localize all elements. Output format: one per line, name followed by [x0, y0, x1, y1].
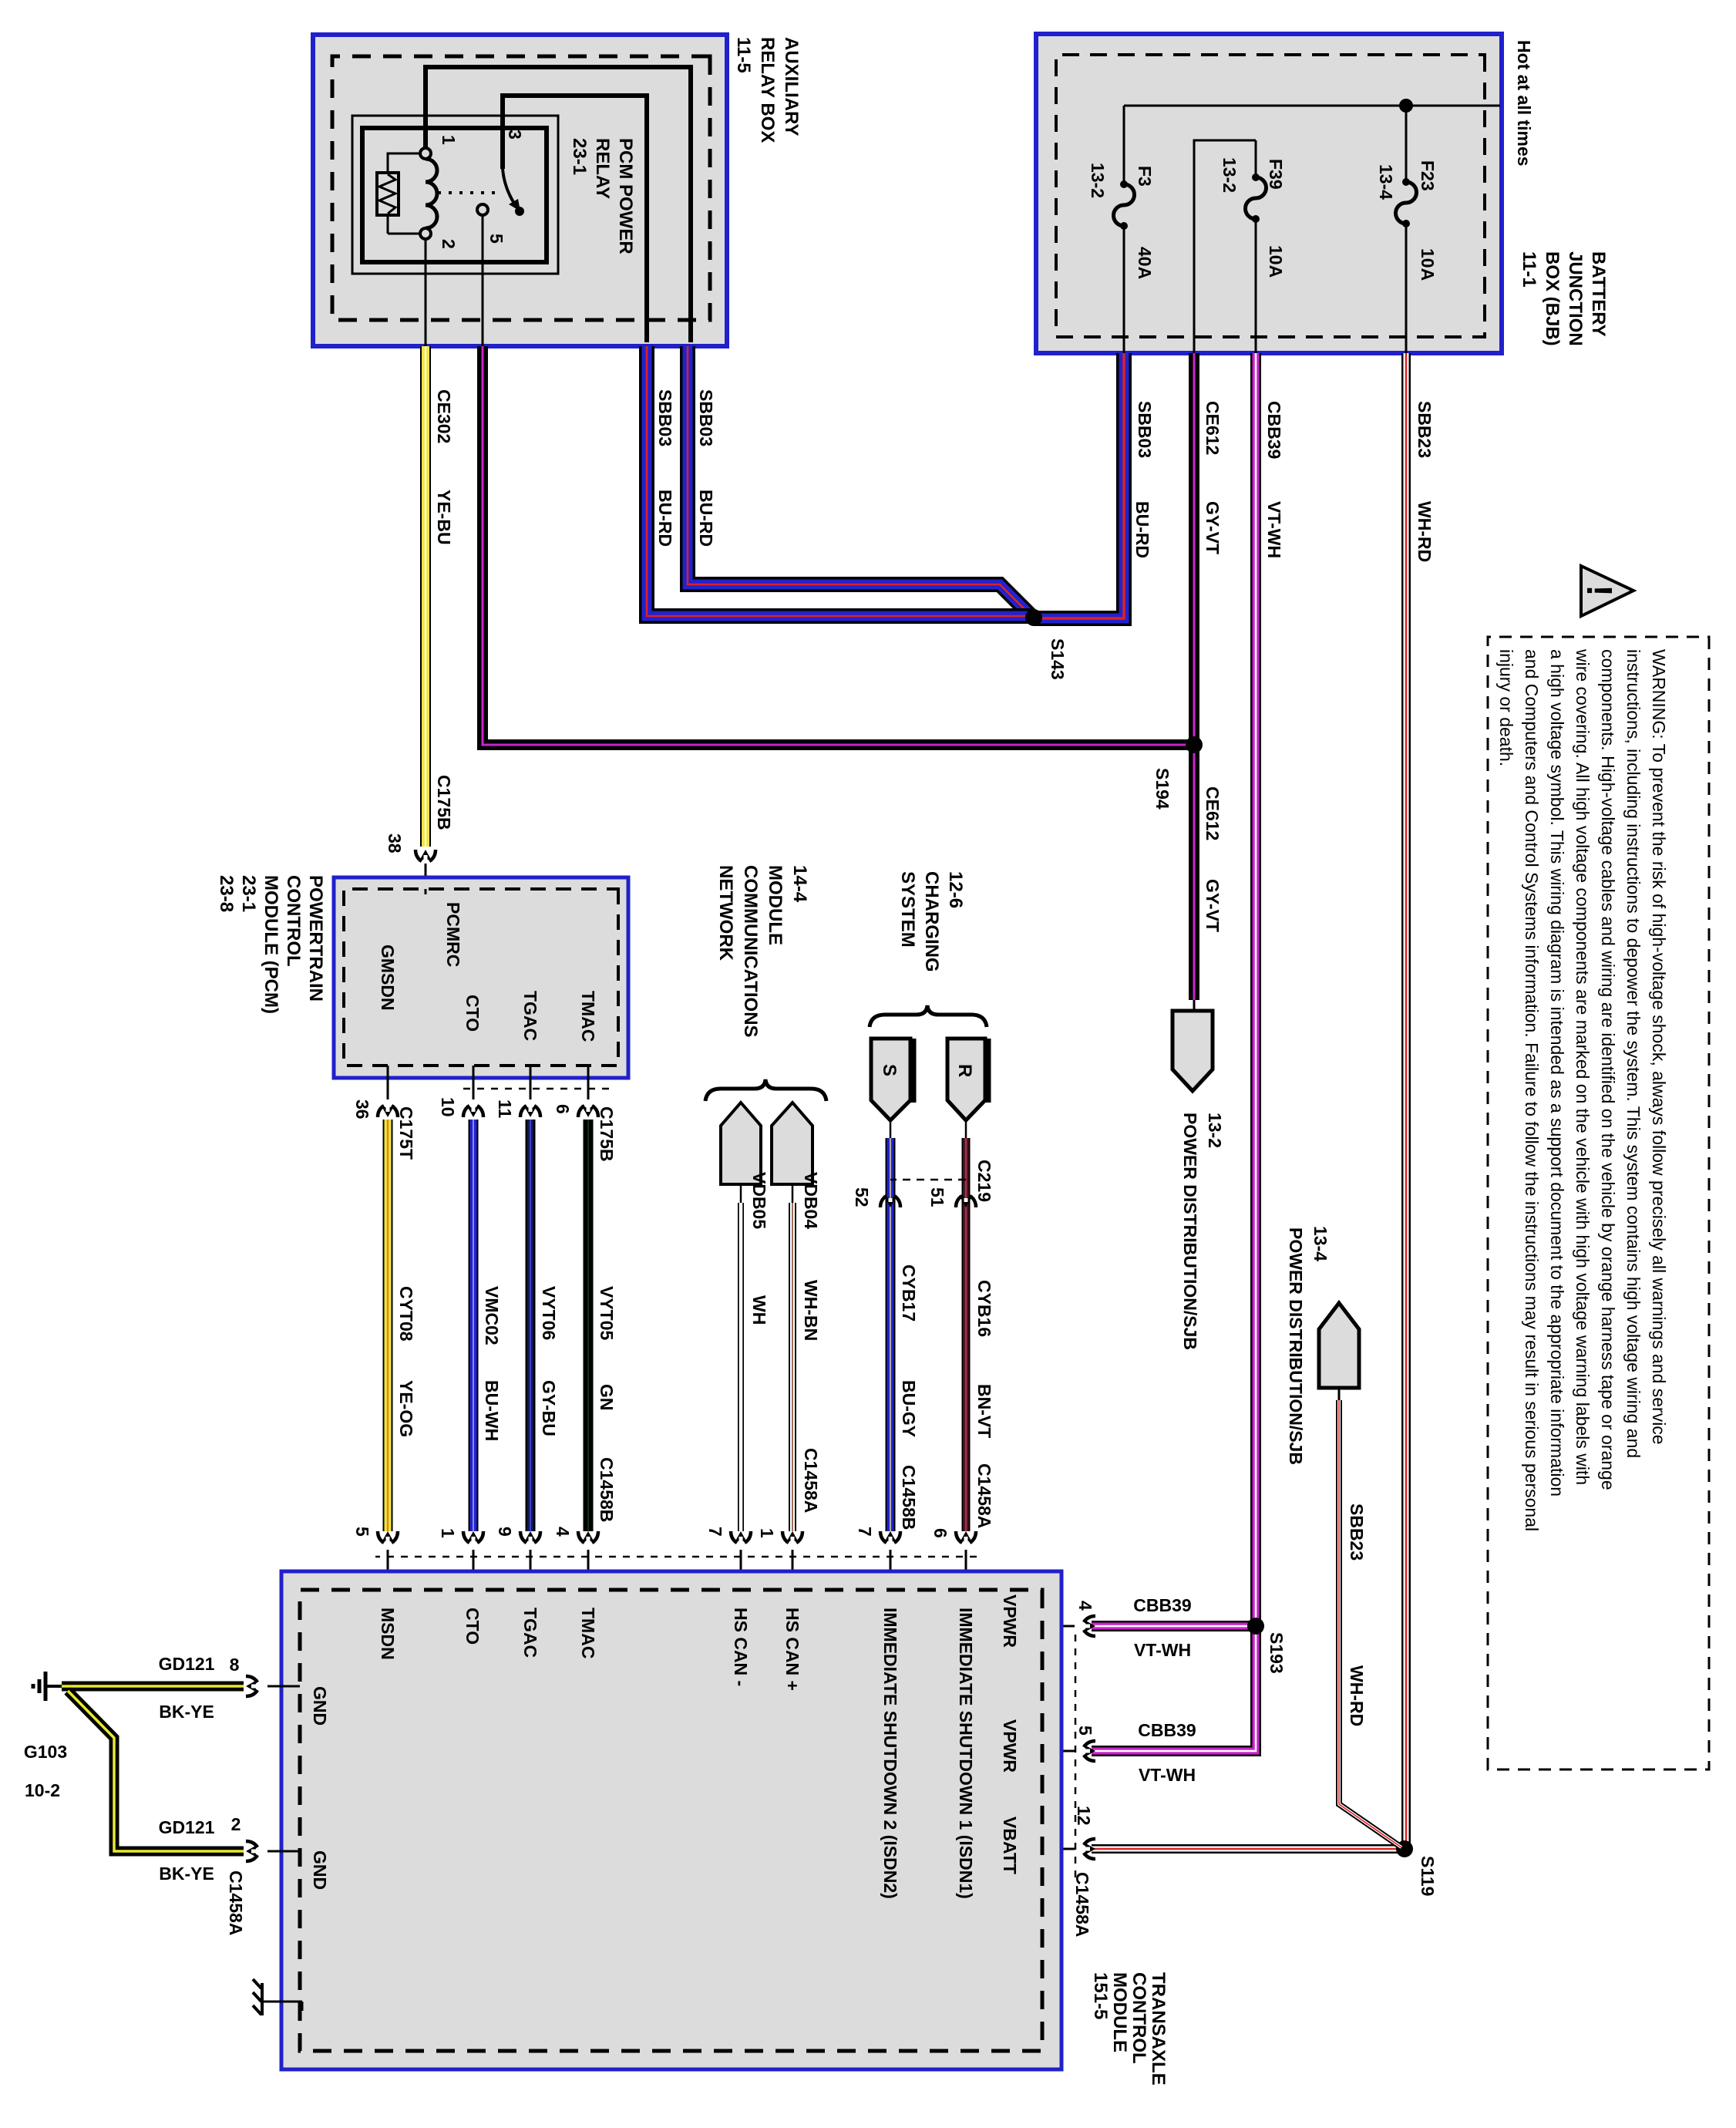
svg-text:CONTROL: CONTROL [1129, 1972, 1149, 2064]
powertrain control module PCM box [334, 877, 628, 1078]
svg-text:9: 9 [495, 1527, 515, 1537]
TCM MSDN pin 5 arrow and lead [378, 1531, 398, 1544]
TCM CTO pin 1 arrow and lead [463, 1531, 483, 1544]
shield splice symbol at TCM bottom [262, 2002, 302, 2011]
svg-text:SBB23: SBB23 [1347, 1503, 1367, 1561]
fuse F23 10A [1396, 182, 1417, 224]
relay box inner dashed border [332, 56, 710, 320]
fuse F3 40A [1114, 184, 1135, 226]
svg-text:CBB39: CBB39 [1264, 401, 1284, 459]
TCM HS CAN + pin 1 arrow and lead [782, 1531, 802, 1544]
svg-text:MODULE (PCM): MODULE (PCM) [261, 875, 281, 1014]
PCM inner dashed border [344, 889, 618, 1066]
svg-text:VPWR: VPWR [1000, 1594, 1020, 1648]
connector C175B arrow at PCM pin 38 [415, 850, 436, 862]
svg-text:G103: G103 [24, 1742, 67, 1762]
svg-text:1: 1 [438, 1528, 458, 1538]
svg-text:IMMEDIATE SHUTDOWN 1 (ISDN1): IMMEDIATE SHUTDOWN 1 (ISDN1) [956, 1608, 976, 1899]
svg-text:1: 1 [439, 135, 459, 145]
svg-text:5: 5 [352, 1527, 372, 1537]
relay dotted actuation line [433, 191, 495, 194]
svg-text:BOX (BJB): BOX (BJB) [1542, 251, 1563, 346]
svg-text:36: 36 [352, 1099, 372, 1120]
wire CYB17 BU-GY from S to TCM ISDN2 pin 7 [890, 1120, 892, 1138]
svg-text:TMAC: TMAC [578, 991, 598, 1042]
svg-text:CBB39: CBB39 [1138, 1720, 1196, 1740]
svg-text:CTO: CTO [463, 995, 483, 1032]
relay coil between pins 1 and 2 [426, 159, 437, 228]
svg-text:VDB04: VDB04 [801, 1172, 821, 1229]
brace for charging system [870, 1005, 987, 1027]
svg-text:WARNING: To prevent the risk o: WARNING: To prevent the risk of high-vol… [1649, 649, 1669, 1445]
svg-text:10: 10 [438, 1097, 458, 1117]
splice S143 [1025, 609, 1042, 626]
svg-text:12: 12 [1074, 1806, 1094, 1826]
svg-text:MODULE: MODULE [765, 865, 786, 945]
svg-text:GN: GN [597, 1384, 617, 1411]
svg-text:S194: S194 [1152, 768, 1172, 810]
svg-text:5: 5 [1075, 1726, 1095, 1736]
off-page connector R (charging system) [947, 1039, 985, 1120]
ground G103 symbol [46, 1685, 62, 1688]
svg-text:BU-RD: BU-RD [696, 490, 716, 547]
TCM TGAC pin 9 arrow and lead [520, 1531, 540, 1544]
svg-text:S193: S193 [1267, 1632, 1287, 1674]
svg-text:C1458A: C1458A [974, 1463, 994, 1528]
svg-text:10A: 10A [1266, 245, 1286, 278]
svg-text:CE302: CE302 [434, 389, 454, 443]
off-page arrow module comms (VDB04) [772, 1103, 812, 1184]
svg-text:R: R [954, 1064, 975, 1077]
relay pin 2 terminal [420, 228, 431, 239]
C219 arrow on CYB16 pin 51 [956, 1195, 976, 1207]
svg-text:VPWR: VPWR [1000, 1719, 1020, 1773]
TCM GND pin 2 lead and arrow [267, 1850, 300, 1853]
svg-text:TRANSAXLE: TRANSAXLE [1148, 1972, 1169, 2086]
svg-text:BATTERY: BATTERY [1588, 251, 1609, 337]
wire CE612 inside BJB with jog to F39 [1194, 140, 1256, 353]
svg-text:BU-WH: BU-WH [482, 1380, 502, 1441]
svg-text:SBB23: SBB23 [1415, 401, 1435, 458]
svg-text:51: 51 [927, 1187, 947, 1207]
svg-text:HS CAN +: HS CAN + [782, 1608, 802, 1691]
svg-text:SYSTEM: SYSTEM [897, 871, 918, 948]
svg-text:a high voltage symbol. This wi: a high voltage symbol. This wiring diagr… [1547, 649, 1567, 1497]
svg-text:SBB03: SBB03 [1135, 401, 1155, 458]
wire VDB04 WH-BN to TCM HS CAN + pin 1 [792, 1184, 794, 1203]
wire SBB03 BU-RD from relay pin 3 to S143 [647, 346, 1034, 616]
svg-text:VMC02: VMC02 [482, 1286, 502, 1345]
PCM power relay inner rectangle [362, 128, 547, 262]
C219 arrow on CYB17 pin 52 [880, 1195, 900, 1207]
wire CYT08 YE-OG PCM pin 36 to TCM MSDN pin 5 [383, 1120, 393, 1531]
wire CE612 GY-VT from BJB through S194 to relay pin 5 and 13-2 arrow [483, 346, 1194, 1000]
svg-text:52: 52 [852, 1187, 872, 1207]
svg-text:1: 1 [757, 1528, 777, 1538]
svg-text:13-4: 13-4 [1310, 1226, 1331, 1261]
svg-text:S143: S143 [1048, 638, 1068, 680]
in-line connector C219 dashed line [890, 1179, 966, 1181]
svg-text:13-2: 13-2 [1205, 1113, 1225, 1148]
svg-text:CONTROL: CONTROL [283, 875, 304, 967]
svg-text:CE612: CE612 [1203, 786, 1223, 840]
svg-text:BK-YE: BK-YE [159, 1702, 214, 1722]
wire F3 branch [1123, 106, 1125, 353]
svg-text:F39: F39 [1266, 159, 1286, 190]
svg-text:WH-BN: WH-BN [801, 1280, 821, 1341]
off-page arrow 13-4 POWER DISTRIBUTION/SJB [1319, 1303, 1359, 1388]
svg-text:151-5: 151-5 [1090, 1972, 1111, 2019]
relay pin 5 terminal [477, 204, 488, 215]
svg-text:2: 2 [439, 239, 459, 249]
auxiliary relay box [313, 35, 727, 346]
off-page connector S (charging system) [871, 1039, 910, 1120]
relay pin 1 wire route to SBB03 exit [426, 67, 691, 342]
svg-text:BU-RD: BU-RD [1132, 501, 1152, 558]
svg-text:C1458A: C1458A [1072, 1872, 1092, 1937]
dashed connector line across PCM output pins [456, 1088, 609, 1090]
svg-text:BK-YE: BK-YE [159, 1864, 214, 1884]
wire CE302 YE-BU from relay pin 2 to PCM pin 38 [420, 346, 431, 847]
wire VDB05 WH to TCM HS CAN - pin 7 [740, 1184, 742, 1203]
svg-text:RELAY BOX: RELAY BOX [757, 37, 778, 143]
svg-text:13-2: 13-2 [1220, 157, 1240, 193]
svg-text:POWER DISTRIBUTION/SJB: POWER DISTRIBUTION/SJB [1286, 1227, 1306, 1465]
svg-text:CYB17: CYB17 [899, 1264, 919, 1322]
svg-text:8: 8 [230, 1655, 240, 1675]
svg-text:11: 11 [495, 1099, 515, 1119]
relay pin 1 terminal [420, 148, 431, 159]
PCM power relay outer rectangle [352, 116, 558, 274]
off-page arrow module comms (VDB05) [721, 1103, 761, 1184]
svg-text:23-1: 23-1 [569, 138, 590, 175]
svg-text:GD121: GD121 [159, 1817, 215, 1837]
svg-text:5: 5 [486, 234, 506, 244]
PCM pin 6 lead and arrow [587, 1066, 590, 1099]
fuse F39 10A [1246, 177, 1267, 219]
PCM pin 10 lead and arrow [473, 1066, 475, 1099]
svg-text:CBB39: CBB39 [1133, 1595, 1191, 1615]
TCM GND pin 8 lead and arrow [267, 1685, 300, 1688]
svg-text:WH-RD: WH-RD [1347, 1665, 1367, 1726]
PCM pin 11 lead and arrow [530, 1066, 532, 1099]
svg-text:components. High-voltage cable: components. High-voltage cables and wiri… [1598, 649, 1618, 1490]
svg-text:BU-GY: BU-GY [899, 1380, 919, 1437]
svg-text:VT-WH: VT-WH [1264, 501, 1284, 558]
svg-text:GD121: GD121 [159, 1654, 215, 1674]
svg-text:C219: C219 [974, 1160, 994, 1202]
svg-text:MSDN: MSDN [378, 1608, 398, 1660]
wire GD121 BK-YE pin 8 to G103 [62, 1682, 244, 1692]
battery junction box BJB [1036, 34, 1502, 353]
svg-text:MODULE: MODULE [1109, 1972, 1130, 2052]
svg-text:WH-RD: WH-RD [1415, 501, 1435, 562]
wire CYB16 BN-VT from R to TCM ISDN1 pin 6 [965, 1120, 967, 1138]
svg-text:4: 4 [553, 1527, 573, 1537]
svg-text:WH: WH [749, 1295, 769, 1325]
svg-text:F23: F23 [1418, 160, 1438, 191]
svg-text:S119: S119 [1418, 1856, 1438, 1896]
svg-text:injury or death.: injury or death. [1496, 649, 1516, 766]
svg-text:POWER DISTRIBUTION/SJB: POWER DISTRIBUTION/SJB [1180, 1113, 1200, 1350]
svg-text:CTO: CTO [463, 1608, 483, 1645]
svg-text:C1458B: C1458B [899, 1465, 919, 1530]
svg-text:!: ! [1580, 584, 1620, 596]
splice S119 [1396, 1840, 1413, 1857]
svg-text:TGAC: TGAC [520, 1608, 540, 1658]
wire VYT06 GY-BU PCM pin 11 to TCM TGAC pin 9 [526, 1120, 536, 1531]
splice S193 [1247, 1618, 1264, 1635]
TCM ISDN1 pin 6 arrow and lead [956, 1531, 976, 1544]
svg-text:38: 38 [385, 833, 405, 854]
hot at all times bus wire [1124, 105, 1500, 107]
wire F39 branch [1255, 140, 1257, 353]
brace for module communications network [705, 1079, 826, 1101]
svg-text:GND: GND [310, 1850, 330, 1890]
svg-text:SBB03: SBB03 [655, 389, 675, 446]
svg-text:VDB05: VDB05 [749, 1172, 769, 1229]
wire SBB03 BU-RD from BJB F3 to S143 [1034, 353, 1124, 618]
svg-text:instructions, including instru: instructions, including instructions to … [1623, 649, 1643, 1458]
resistor body with zigzag [377, 173, 399, 215]
svg-text:CE612: CE612 [1203, 401, 1223, 455]
svg-text:HS CAN -: HS CAN - [731, 1608, 751, 1686]
svg-text:CHARGING: CHARGING [921, 871, 942, 972]
wire F23 branch [1405, 106, 1408, 353]
TCM pin 5 arrow and lead [1083, 1741, 1095, 1761]
svg-text:23-8: 23-8 [216, 875, 237, 912]
warning dashed box [1488, 637, 1709, 1769]
svg-text:C1458B: C1458B [597, 1457, 617, 1522]
svg-text:RELAY: RELAY [592, 138, 613, 199]
svg-text:C175T: C175T [396, 1106, 416, 1160]
svg-text:4: 4 [1075, 1601, 1095, 1611]
wire VMC02 BU-WH PCM pin 10 to TCM CTO pin 1 [469, 1120, 479, 1531]
relay pin 5 lead to CE612 exit [482, 215, 484, 346]
TCM HS CAN - pin 7 arrow and lead [731, 1531, 751, 1544]
svg-text:GY-BU: GY-BU [539, 1380, 559, 1436]
wire SBB03 BU-RD from relay pin 1 to S143 (with diagonal) [688, 346, 1032, 617]
svg-text:BN-VT: BN-VT [974, 1384, 994, 1438]
svg-text:13-4: 13-4 [1376, 164, 1396, 200]
relay pin 3 wire route to SBB03 exit [503, 96, 647, 342]
svg-text:GY-VT: GY-VT [1203, 501, 1223, 554]
svg-text:14-4: 14-4 [789, 865, 810, 903]
wire SBB23 WH-RD thin from 13-4 arrow to S119 [1339, 1400, 1401, 1847]
svg-text:BU-RD: BU-RD [655, 490, 675, 547]
svg-text:JUNCTION: JUNCTION [1565, 251, 1586, 346]
svg-text:C175B: C175B [434, 775, 454, 830]
svg-text:7: 7 [855, 1527, 875, 1537]
wire VYT05 GN PCM pin 6 to TCM TMAC pin 4 [584, 1120, 594, 1531]
transaxle control module TCM box [281, 1571, 1061, 2069]
svg-text:NETWORK: NETWORK [715, 865, 736, 961]
wire CBB39 VT-WH from BJB F39 to S193, pins 4 and 5 [1092, 353, 1256, 1751]
svg-text:2: 2 [231, 1814, 241, 1834]
svg-text:wire covering. All high voltag: wire covering. All high voltage componen… [1573, 648, 1593, 1485]
svg-text:7: 7 [705, 1527, 725, 1537]
svg-text:CYT08: CYT08 [396, 1286, 416, 1342]
relay pin 2 lead to CE302 exit [425, 239, 427, 346]
svg-text:COMMUNICATIONS: COMMUNICATIONS [740, 865, 761, 1038]
svg-text:40A: 40A [1135, 247, 1155, 279]
relay switch contact blob [515, 207, 524, 216]
dashed connector line across pins 4,5,12 [1075, 1635, 1077, 1881]
svg-text:VYT05: VYT05 [597, 1286, 617, 1341]
svg-text:10-2: 10-2 [25, 1780, 60, 1800]
TCM ISDN2 pin 7 arrow and lead [880, 1531, 900, 1544]
svg-text:GND: GND [310, 1686, 330, 1726]
svg-text:VBATT: VBATT [1000, 1817, 1020, 1874]
svg-text:IMMEDIATE SHUTDOWN 2 (ISDN2): IMMEDIATE SHUTDOWN 2 (ISDN2) [880, 1608, 900, 1899]
svg-text:VYT06: VYT06 [539, 1286, 559, 1340]
svg-text:TMAC: TMAC [578, 1608, 598, 1658]
svg-text:PCMRC: PCMRC [443, 902, 463, 967]
svg-text:11-5: 11-5 [733, 37, 754, 73]
TCM inner dashed border [300, 1590, 1042, 2051]
PCM pin 38 lead inside box [425, 889, 427, 894]
TCM pin 12 arrow and lead [1083, 1839, 1095, 1859]
svg-text:11-1: 11-1 [1519, 251, 1539, 288]
svg-text:AUXILIARY: AUXILIARY [781, 37, 802, 136]
svg-text:PCM POWER: PCM POWER [615, 138, 636, 254]
svg-text:SBB03: SBB03 [696, 389, 716, 446]
wire SBB23 WH-RD from BJB F23 to S119 to TCM pin 12 [1092, 353, 1406, 1849]
svg-text:GMSDN: GMSDN [378, 944, 398, 1011]
svg-text:GY-VT: GY-VT [1203, 879, 1223, 932]
relay coil resistor parallel branch [388, 153, 420, 234]
svg-text:VT-WH: VT-WH [1139, 1765, 1196, 1785]
svg-text:13-2: 13-2 [1088, 163, 1108, 198]
svg-text:F3: F3 [1135, 166, 1155, 187]
relay switch arm from pin 3 [503, 169, 513, 202]
svg-text:23-1: 23-1 [238, 875, 259, 912]
svg-text:POWERTRAIN: POWERTRAIN [305, 875, 326, 1002]
svg-text:6: 6 [553, 1104, 573, 1114]
svg-text:VT-WH: VT-WH [1134, 1640, 1191, 1660]
wire GD121 BK-YE pin 2 to G103 [68, 1691, 244, 1851]
svg-text:10A: 10A [1418, 248, 1438, 281]
PCM pin 36 lead and arrow [387, 1066, 389, 1099]
svg-text:S: S [879, 1064, 900, 1076]
svg-text:Hot at all times: Hot at all times [1514, 40, 1534, 167]
svg-text:12-6: 12-6 [945, 871, 966, 908]
TCM TMAC pin 4 arrow and lead [578, 1531, 598, 1544]
svg-text:TGAC: TGAC [520, 991, 540, 1041]
svg-text:C1458A: C1458A [801, 1448, 821, 1513]
svg-text:YE-BU: YE-BU [434, 490, 454, 545]
svg-text:and Computers and Control Syst: and Computers and Control Systems inform… [1522, 649, 1542, 1531]
off-page arrow 13-2 POWER DISTRIBUTION/SJB [1193, 1000, 1196, 1012]
dashed connector line across TCM left pins [375, 1556, 977, 1558]
svg-text:C1458A: C1458A [226, 1870, 246, 1935]
node on bus (F23 tap) [1399, 99, 1413, 113]
svg-text:CYB16: CYB16 [974, 1280, 994, 1337]
svg-text:6: 6 [930, 1528, 950, 1538]
warning triangle [1581, 566, 1633, 616]
svg-text:3: 3 [505, 130, 525, 140]
splice S194 [1186, 736, 1203, 753]
TCM pin 4 arrow and lead [1083, 1616, 1095, 1636]
svg-text:C175B: C175B [597, 1106, 617, 1162]
svg-text:YE-OG: YE-OG [396, 1380, 416, 1437]
BJB inner dashed border [1056, 55, 1485, 337]
